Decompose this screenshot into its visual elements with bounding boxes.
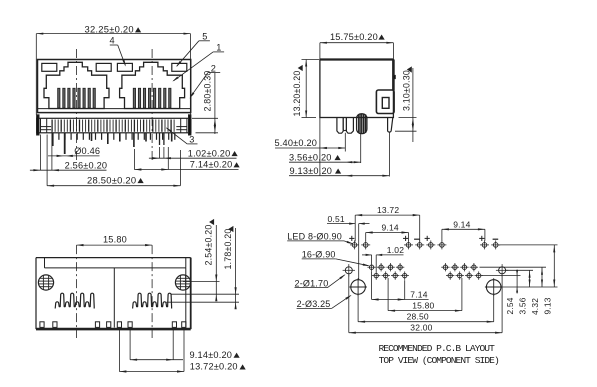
- dim 1.02 (pcb): [362, 245, 404, 272]
- solder pad feet on bottom edge: [40, 322, 186, 328]
- right clip detail: [176, 118, 187, 133]
- left clip detail: [41, 118, 52, 133]
- svg-text:15.75±0.20: 15.75±0.20: [330, 32, 378, 42]
- ext lines right chain (pcb): [480, 245, 558, 287]
- dim 5.40±0.20 (side): [275, 118, 346, 177]
- bottom view inner wall: [45, 258, 186, 328]
- dim 3.56±0.20 (side): [289, 134, 361, 163]
- svg-text:9.13: 9.13: [542, 297, 552, 314]
- LED holes 8-Ø0.90: [350, 240, 500, 249]
- dim 2.80±0.30 flange height (front right): [192, 71, 218, 134]
- svg-text:2.80±0.30: 2.80±0.30: [203, 71, 213, 112]
- caption line 2: [379, 355, 499, 366]
- svg-text:9.14±0.20: 9.14±0.20: [190, 350, 233, 360]
- svg-text:2-Ø1.70: 2-Ø1.70: [295, 278, 329, 288]
- svg-text:3.56±0.20: 3.56±0.20: [289, 152, 332, 162]
- svg-text:4: 4: [110, 36, 115, 46]
- dim 13.72 (pcb): [355, 205, 420, 241]
- svg-text:1: 1: [216, 43, 221, 53]
- caption line 1: [379, 343, 496, 354]
- leader label 3: [166, 127, 198, 144]
- svg-text:3: 3: [189, 135, 194, 145]
- contact springs port 2 (bottom view): [133, 293, 172, 308]
- svg-text:7.14±0.20: 7.14±0.20: [190, 160, 233, 170]
- svg-text:7.14: 7.14: [410, 290, 427, 300]
- dim 15.80 (pcb): [388, 278, 462, 312]
- front body outline: [38, 60, 191, 113]
- dim 7.14±0.20 pin group span (front): [134, 147, 239, 171]
- svg-text:RECOMMENDED P.C.B LAYOUT: RECOMMENDED P.C.B LAYOUT: [379, 343, 496, 354]
- dim 3.10±0.30 standoff (side right): [395, 66, 417, 142]
- dim 13.72±0.20 (bottom view): [119, 329, 245, 373]
- svg-text:TOP VIEW (COMPONENT SIDE): TOP VIEW (COMPONENT SIDE): [379, 355, 499, 366]
- dim 1.78±0.20 (bottom view right): [167, 226, 240, 309]
- port 2 cavity with 8 contacts: [117, 62, 186, 108]
- dim 9.14±0.20 (bottom view): [130, 329, 240, 361]
- svg-text:5.40±0.20: 5.40±0.20: [275, 138, 318, 148]
- svg-text:9.13±0.20: 9.13±0.20: [290, 166, 333, 176]
- svg-text:2.54: 2.54: [505, 297, 515, 314]
- dim 7.14 (pcb): [372, 272, 429, 301]
- label 2-Ø1.70 with leader: [295, 274, 346, 288]
- side body outline: [320, 60, 394, 118]
- dim 13.20±0.20 height (side left): [292, 60, 319, 118]
- signal pin holes 16-Ø0.90: [367, 263, 483, 280]
- leader label 5: [176, 32, 210, 68]
- short pin stubs below flange: [53, 133, 175, 140]
- post holes 2-Ø3.25: [349, 278, 502, 296]
- svg-text:28.50±0.20: 28.50±0.20: [87, 174, 136, 185]
- dim 28.50 (pcb): [358, 295, 494, 323]
- label LED 8-Ø0.90 with leader: [287, 231, 353, 244]
- front body bottom lip line: [38, 108, 191, 110]
- leader label 4: [110, 36, 127, 67]
- svg-text:4.32: 4.32: [530, 298, 540, 315]
- label 2-Ø3.25 with leader: [297, 295, 352, 309]
- knurled post (right): [175, 275, 190, 290]
- svg-text:3.56: 3.56: [518, 297, 528, 314]
- rear leg (side): [388, 118, 393, 133]
- plastic posts (side): [337, 118, 354, 133]
- svg-text:2: 2: [211, 64, 216, 74]
- svg-text:1.78±0.20: 1.78±0.20: [223, 229, 233, 270]
- svg-text:0.51: 0.51: [328, 214, 345, 224]
- leader label 2: [190, 64, 221, 99]
- contact springs port 1 (bottom view): [55, 293, 94, 308]
- dim 32.00 (pcb): [349, 274, 502, 334]
- port 1 centerline (bottom view): [76, 245, 78, 338]
- port 1 cavity with 8 contacts: [42, 62, 111, 108]
- svg-text:Ø0.46: Ø0.46: [74, 146, 100, 156]
- svg-text:9.14: 9.14: [453, 219, 470, 229]
- svg-text:13.72±0.20: 13.72±0.20: [190, 362, 238, 372]
- board-lock latch block: [376, 90, 394, 114]
- port 2 centerline (bottom view): [151, 245, 153, 338]
- side view: RJ45 jack side elevation: [275, 32, 417, 177]
- svg-text:13.20±0.20: 13.20±0.20: [292, 71, 302, 117]
- svg-text:13.72: 13.72: [377, 205, 399, 215]
- center divider wall: [113, 268, 115, 328]
- svg-text:16-Ø.90: 16-Ø.90: [302, 250, 336, 260]
- left EMI ground tab: [37, 115, 39, 135]
- dim 3.56 vertical (pcb): [518, 270, 531, 314]
- EMI spring contact coil (side): [357, 114, 367, 134]
- dim 9.13 vertical (pcb): [542, 245, 555, 315]
- dim Ø0.46 pin diameter: [48, 146, 100, 157]
- dim 0.51 (pcb): [327, 214, 370, 280]
- svg-text:9.14: 9.14: [382, 223, 399, 233]
- dim 2.54 vertical (pcb): [505, 270, 518, 315]
- dim 1.02±0.20 adjacent pin pitch (front): [149, 147, 238, 159]
- dim 2.56±0.20 (front, pin position): [30, 132, 107, 172]
- svg-text:1.02±0.20: 1.02±0.20: [188, 148, 231, 158]
- svg-text:1.02: 1.02: [387, 245, 404, 255]
- dim 4.32 vertical (pcb): [530, 267, 543, 315]
- svg-text:5: 5: [202, 32, 207, 42]
- svg-text:2.56±0.20: 2.56±0.20: [65, 160, 108, 170]
- dim 9.14 left (pcb): [366, 223, 409, 241]
- svg-text:15.80: 15.80: [103, 235, 127, 245]
- front view: dual-port RJ45 jack, front elevation: [30, 24, 240, 187]
- svg-text:32.25±0.20: 32.25±0.20: [85, 24, 134, 35]
- dim 15.75±0.20 depth (side): [320, 32, 394, 59]
- svg-text:2-Ø3.25: 2-Ø3.25: [297, 299, 331, 309]
- pin comb in flange: [52, 120, 174, 132]
- svg-text:2.54±0.20: 2.54±0.20: [204, 225, 214, 266]
- knurled post (left): [38, 275, 53, 290]
- long solder pins below flange: [53, 133, 172, 154]
- recommended PCB layout, top view: [287, 205, 557, 366]
- label 16-Ø.90 with leader: [302, 250, 370, 266]
- latch window hole: [382, 98, 389, 109]
- port 1 centerline: [76, 49, 78, 160]
- dim 2.54±0.20 (bottom view right): [171, 219, 240, 301]
- svg-text:32.00: 32.00: [410, 323, 432, 333]
- svg-text:3.10±0.30: 3.10±0.30: [401, 70, 411, 111]
- panel stop nub: [393, 75, 395, 78]
- bottom view: jack seen from underside: [36, 219, 246, 373]
- svg-text:28.50: 28.50: [407, 312, 429, 322]
- EMI tab holes 2-Ø1.70: [343, 264, 509, 276]
- leader label 1: [172, 43, 224, 82]
- dim 28.50±0.20 pin row span: [47, 135, 180, 187]
- bottom view body outline: [36, 258, 191, 330]
- LED polarity marks: [349, 236, 498, 241]
- base flange strip: [37, 118, 191, 133]
- svg-text:15.80: 15.80: [412, 301, 434, 311]
- dim 15.80 port spacing (bottom view): [77, 235, 153, 247]
- dim 9.14 right (pcb): [442, 219, 485, 240]
- svg-text:LED 8-Ø0.90: LED 8-Ø0.90: [287, 231, 342, 241]
- right EMI ground tab: [189, 115, 191, 135]
- port 2 centerline: [151, 49, 153, 160]
- dim 32.25±0.20 overall width (front): [36, 24, 190, 115]
- dim 9.13±0.20 (side): [289, 132, 389, 177]
